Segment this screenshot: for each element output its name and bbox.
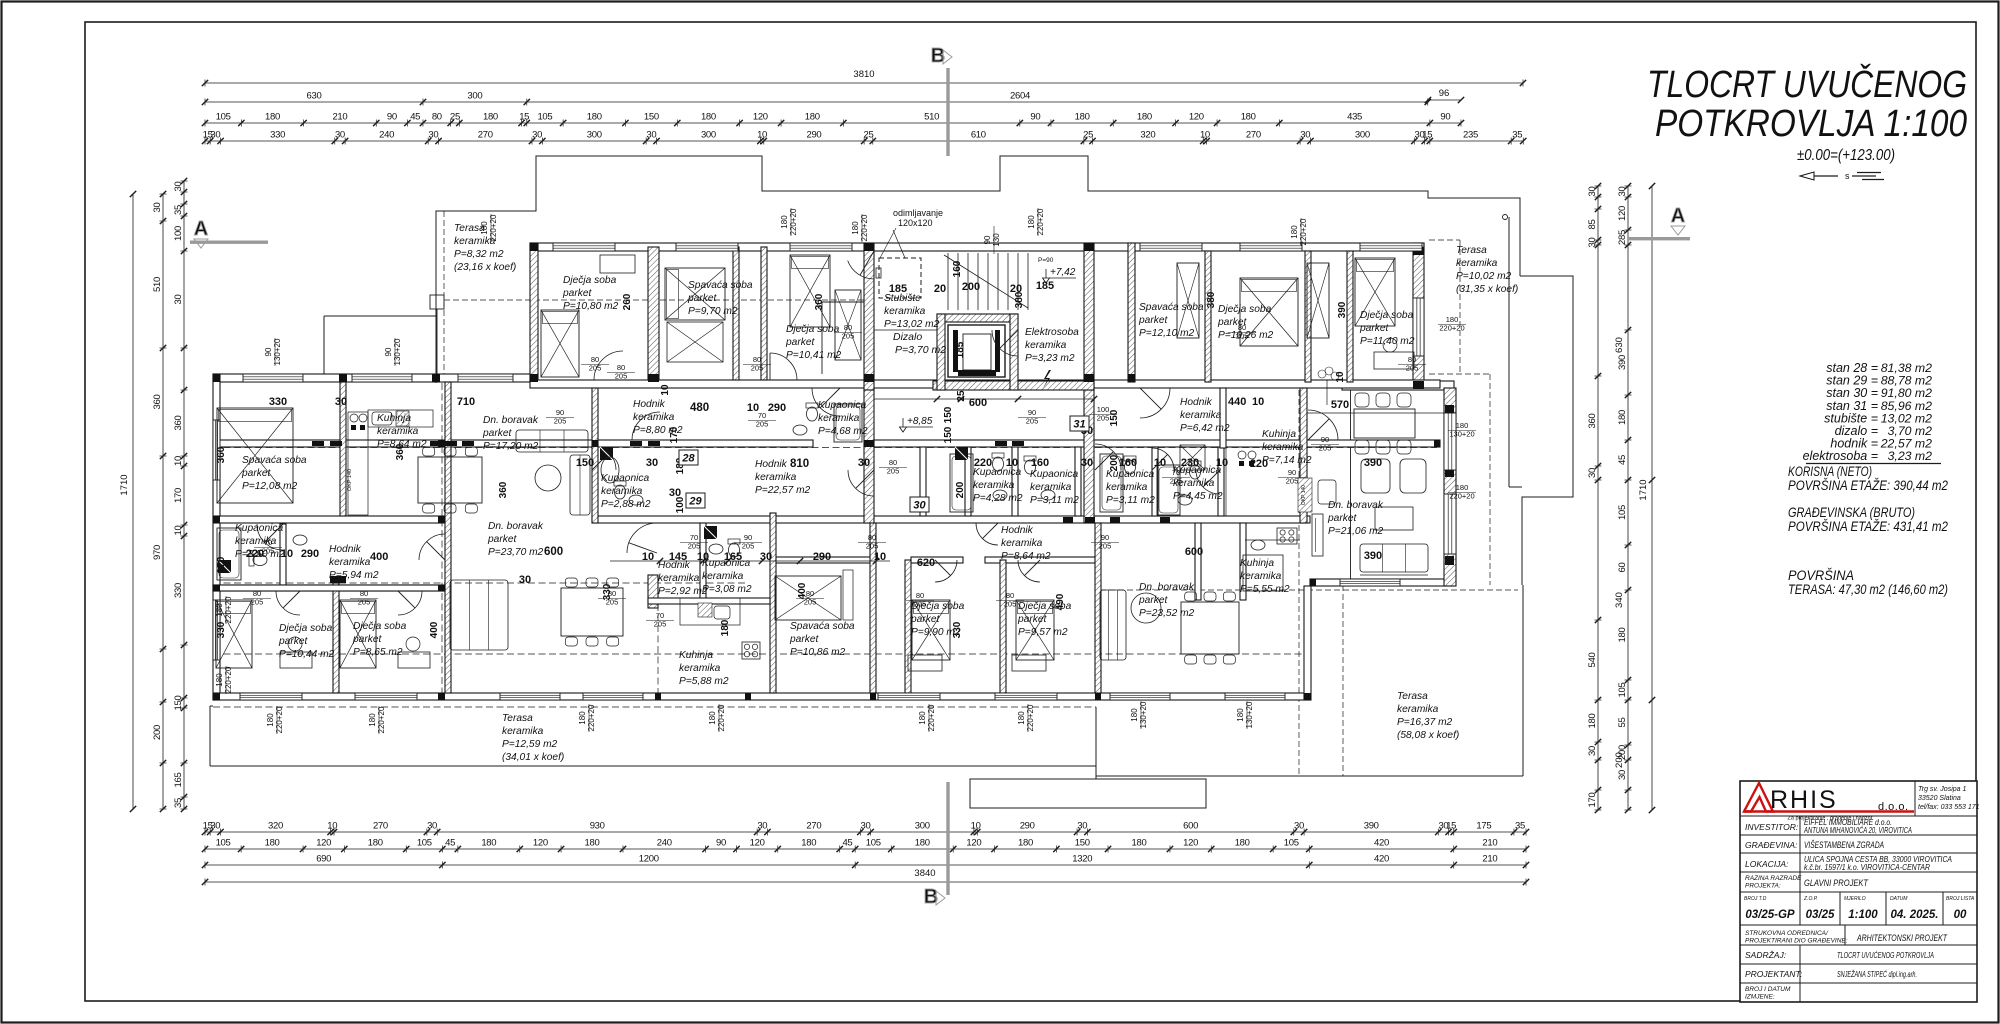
svg-text:300: 300 — [587, 130, 602, 141]
svg-text:TERASA: 47,30 m2 (146,60 m2): TERASA: 47,30 m2 (146,60 m2) — [1788, 581, 1948, 597]
svg-text:parket: parket — [1359, 323, 1389, 334]
svg-text:A: A — [194, 218, 208, 240]
svg-text:10: 10 — [173, 456, 184, 466]
svg-text:145: 145 — [669, 551, 687, 563]
svg-text:P=10,02 m2: P=10,02 m2 — [1456, 271, 1512, 282]
svg-text:P=5,88 m2: P=5,88 m2 — [679, 676, 729, 687]
svg-text:810: 810 — [790, 458, 809, 470]
svg-text:220+20: 220+20 — [1036, 208, 1045, 235]
svg-text:105: 105 — [417, 838, 432, 849]
svg-text:170: 170 — [173, 488, 184, 503]
svg-text:180: 180 — [587, 112, 602, 123]
svg-text:STRUKOVNA ODREDNICA/: STRUKOVNA ODREDNICA/ — [1745, 930, 1829, 937]
svg-text:230: 230 — [1181, 457, 1199, 469]
svg-text:270: 270 — [478, 130, 493, 141]
svg-text:POTKROVLJA 1:100: POTKROVLJA 1:100 — [1655, 103, 1967, 145]
svg-text:±0.00=(+123.00): ±0.00=(+123.00) — [1797, 147, 1895, 164]
svg-text:160: 160 — [1031, 457, 1049, 469]
svg-text:keramika: keramika — [329, 557, 371, 568]
svg-text:(31,35 x koef): (31,35 x koef) — [1456, 284, 1518, 295]
svg-text:s: s — [1845, 171, 1850, 181]
svg-text:Kupaonica: Kupaonica — [818, 400, 866, 411]
svg-text:235: 235 — [1463, 130, 1478, 141]
svg-text:30: 30 — [427, 821, 437, 832]
svg-text:290: 290 — [301, 548, 319, 560]
svg-text:PROJEKTA:: PROJEKTA: — [1745, 883, 1781, 890]
svg-text:Hodnik: Hodnik — [633, 399, 666, 410]
svg-text:30: 30 — [1081, 457, 1093, 469]
svg-text:15: 15 — [1422, 130, 1432, 141]
svg-text:30: 30 — [210, 821, 220, 832]
svg-text:180: 180 — [1017, 711, 1026, 725]
svg-text:Z.O.P.: Z.O.P. — [1803, 896, 1818, 902]
svg-text:240: 240 — [379, 130, 394, 141]
svg-text:90: 90 — [983, 235, 992, 244]
svg-text:400: 400 — [370, 551, 388, 563]
svg-text:930: 930 — [590, 821, 605, 832]
svg-text:205: 205 — [554, 417, 567, 426]
svg-text:205: 205 — [589, 364, 602, 373]
svg-text:keramika: keramika — [1240, 571, 1282, 582]
svg-text:Spavaća soba: Spavaća soba — [688, 280, 753, 291]
svg-text:220+20: 220+20 — [717, 704, 726, 731]
svg-text:P=16,37 m2: P=16,37 m2 — [1397, 717, 1453, 728]
svg-text:30: 30 — [1587, 468, 1598, 478]
svg-text:210: 210 — [1482, 838, 1497, 849]
svg-text:P=4,28 m2: P=4,28 m2 — [973, 493, 1023, 504]
svg-text:+8,85: +8,85 — [907, 416, 933, 427]
svg-text:30: 30 — [913, 500, 926, 512]
svg-text:P=8,65 m2: P=8,65 m2 — [353, 647, 403, 658]
svg-text:150: 150 — [1109, 409, 1120, 426]
svg-text:205: 205 — [688, 542, 701, 551]
svg-text:Kupaonica: Kupaonica — [1030, 469, 1078, 480]
svg-text:690: 690 — [316, 854, 331, 865]
svg-text:130+20: 130+20 — [1449, 430, 1474, 439]
svg-text:keramika: keramika — [502, 726, 544, 737]
svg-text:parket: parket — [789, 634, 819, 645]
svg-text:120: 120 — [533, 838, 548, 849]
svg-text:165: 165 — [724, 551, 742, 563]
svg-text:205: 205 — [1406, 364, 1419, 373]
svg-text:Kupaonica: Kupaonica — [235, 523, 283, 534]
svg-text:180: 180 — [1137, 112, 1152, 123]
svg-text:A: A — [1671, 205, 1685, 227]
svg-text:04. 2025.: 04. 2025. — [1891, 909, 1939, 921]
svg-text:180: 180 — [918, 711, 927, 725]
svg-text:Terasa: Terasa — [1456, 245, 1487, 256]
svg-text:180: 180 — [805, 112, 820, 123]
svg-text:parket: parket — [1138, 315, 1168, 326]
svg-text:180: 180 — [1075, 112, 1090, 123]
svg-text:Terasa: Terasa — [1397, 691, 1428, 702]
svg-text:10: 10 — [874, 551, 886, 563]
svg-text:290: 290 — [813, 551, 831, 563]
svg-text:parket: parket — [562, 288, 592, 299]
svg-text:180: 180 — [915, 838, 930, 849]
svg-text:keramika: keramika — [633, 412, 675, 423]
svg-text:90: 90 — [387, 112, 397, 123]
svg-text:270: 270 — [373, 821, 388, 832]
svg-text:30: 30 — [1587, 187, 1598, 197]
svg-text:keramika: keramika — [1106, 482, 1148, 493]
svg-text:03/25: 03/25 — [1806, 909, 1835, 921]
svg-text:170: 170 — [669, 426, 680, 443]
svg-text:205: 205 — [1236, 332, 1249, 341]
svg-text:Spavaća soba: Spavaća soba — [790, 621, 855, 632]
svg-text:160: 160 — [952, 260, 963, 277]
svg-text:Dječja soba: Dječja soba — [1218, 304, 1272, 315]
svg-text:180: 180 — [1290, 225, 1299, 239]
svg-text:180: 180 — [368, 838, 383, 849]
svg-text:P=9,70 m2: P=9,70 m2 — [688, 306, 738, 317]
svg-text:30: 30 — [428, 130, 438, 141]
svg-text:OKP 140: OKP 140 — [1301, 485, 1307, 505]
svg-text:tel/fax: 033 553 171: tel/fax: 033 553 171 — [1918, 804, 1980, 811]
svg-text:30: 30 — [152, 203, 163, 213]
svg-text:160: 160 — [1119, 457, 1137, 469]
svg-text:620: 620 — [917, 557, 935, 569]
svg-text:GLAVNI PROJEKT: GLAVNI PROJEKT — [1804, 878, 1869, 889]
svg-text:80: 80 — [432, 112, 442, 123]
svg-text:Kuhinja: Kuhinja — [377, 413, 411, 424]
svg-text:220+20: 220+20 — [587, 704, 596, 731]
svg-text:435: 435 — [1347, 112, 1362, 123]
svg-text:parket: parket — [482, 428, 512, 439]
svg-text:180: 180 — [1236, 708, 1245, 722]
svg-text:P=3,08 m2: P=3,08 m2 — [702, 584, 752, 595]
svg-text:10: 10 — [1252, 396, 1264, 408]
svg-text:30: 30 — [858, 457, 870, 469]
svg-text:120: 120 — [1617, 206, 1628, 221]
svg-text:150: 150 — [173, 696, 184, 711]
svg-text:Dn. boravak: Dn. boravak — [1328, 500, 1384, 511]
svg-text:220: 220 — [974, 457, 992, 469]
svg-text:360: 360 — [152, 395, 163, 410]
svg-text:30: 30 — [861, 821, 871, 832]
svg-text:180: 180 — [780, 215, 789, 229]
svg-text:BROJ I DATUM: BROJ I DATUM — [1745, 986, 1791, 993]
svg-text:30: 30 — [1077, 821, 1087, 832]
svg-text:420: 420 — [1374, 854, 1389, 865]
svg-text:360: 360 — [814, 293, 825, 310]
svg-text:45: 45 — [842, 838, 852, 849]
svg-text:220+20: 220+20 — [489, 214, 498, 241]
svg-text:P=12,10 m2: P=12,10 m2 — [1139, 328, 1195, 339]
svg-text:510: 510 — [152, 277, 163, 292]
svg-text:440: 440 — [1228, 396, 1246, 408]
svg-text:Spavaća soba: Spavaća soba — [1139, 302, 1204, 313]
svg-text:480: 480 — [690, 402, 709, 414]
svg-text:3810: 3810 — [853, 69, 874, 80]
svg-text:85: 85 — [1587, 220, 1598, 230]
svg-text:185: 185 — [955, 341, 966, 358]
svg-text:P=90: P=90 — [1038, 257, 1054, 264]
svg-text:205: 205 — [606, 598, 619, 607]
svg-text:keramika: keramika — [755, 472, 797, 483]
svg-text:105: 105 — [216, 838, 231, 849]
svg-text:180: 180 — [266, 713, 275, 727]
svg-text:360: 360 — [498, 481, 509, 498]
svg-text:130+20: 130+20 — [1139, 701, 1148, 728]
svg-text:P=12,08 m2: P=12,08 m2 — [242, 481, 298, 492]
svg-text:keramika: keramika — [702, 571, 744, 582]
svg-text:30: 30 — [335, 396, 347, 408]
svg-text:220+20: 220+20 — [224, 666, 233, 693]
svg-text:Dječja soba: Dječja soba — [563, 275, 617, 286]
svg-text:220+20: 220+20 — [1026, 704, 1035, 731]
svg-text:parket: parket — [1017, 614, 1047, 625]
svg-text:175: 175 — [1476, 821, 1491, 832]
svg-text:(34,01 x koef): (34,01 x koef) — [502, 752, 564, 763]
svg-text:205: 205 — [887, 467, 900, 476]
svg-text:31: 31 — [1073, 419, 1085, 431]
svg-text:10: 10 — [1200, 130, 1210, 141]
svg-text:30: 30 — [760, 551, 772, 563]
svg-text:keramika: keramika — [1456, 258, 1498, 269]
svg-text:630: 630 — [1614, 337, 1625, 353]
svg-text:130: 130 — [992, 233, 1001, 247]
svg-text:290: 290 — [806, 130, 821, 141]
svg-text:keramika: keramika — [973, 480, 1015, 491]
svg-text:260: 260 — [622, 293, 633, 310]
svg-text:390: 390 — [1364, 550, 1382, 562]
svg-text:P=17,20 m2: P=17,20 m2 — [483, 441, 539, 452]
svg-text:33520 Slatina: 33520 Slatina — [1918, 795, 1961, 802]
svg-text:30: 30 — [335, 130, 345, 141]
svg-text:10: 10 — [173, 526, 184, 536]
svg-text:P=23,70 m2: P=23,70 m2 — [488, 547, 544, 558]
svg-text:P=23,52 m2: P=23,52 m2 — [1139, 608, 1195, 619]
svg-text:630: 630 — [307, 91, 322, 102]
svg-text:Terasa: Terasa — [502, 713, 533, 724]
svg-text:90: 90 — [1440, 112, 1450, 123]
svg-text:205: 205 — [358, 598, 371, 607]
svg-text:970: 970 — [152, 545, 163, 560]
svg-text:205: 205 — [1319, 444, 1332, 453]
svg-text:10: 10 — [1006, 457, 1018, 469]
svg-text:00: 00 — [1954, 909, 1967, 921]
svg-text:180: 180 — [708, 711, 717, 725]
svg-text:340: 340 — [1614, 592, 1625, 608]
svg-text:parket: parket — [1327, 513, 1357, 524]
svg-text:30: 30 — [1300, 130, 1310, 141]
svg-text:03/25-GP: 03/25-GP — [1745, 909, 1795, 921]
svg-text:k.č.br. 1597/1 k.o. VIROVITIC: k.č.br. 1597/1 k.o. VIROVITICA-CENTAR — [1804, 863, 1930, 872]
svg-text:105: 105 — [216, 112, 231, 123]
svg-text:510: 510 — [924, 112, 939, 123]
svg-text:45: 45 — [1617, 455, 1628, 465]
svg-text:205: 205 — [1099, 542, 1112, 551]
svg-text:30: 30 — [757, 821, 767, 832]
svg-text:205: 205 — [1097, 414, 1110, 423]
svg-text:BROJ LISTA: BROJ LISTA — [1946, 896, 1975, 902]
svg-text:390: 390 — [1364, 821, 1379, 832]
svg-text:210: 210 — [332, 112, 347, 123]
svg-text:55: 55 — [1617, 718, 1628, 728]
svg-text:105: 105 — [866, 838, 881, 849]
svg-text:205: 205 — [251, 598, 264, 607]
svg-text:BROJ T.D: BROJ T.D — [1744, 896, 1767, 902]
svg-text:205: 205 — [615, 372, 628, 381]
svg-text:P=4,45 m2: P=4,45 m2 — [1173, 491, 1223, 502]
svg-text:Kuhinja: Kuhinja — [1240, 558, 1274, 569]
svg-text:120x120: 120x120 — [898, 218, 933, 228]
svg-text:90: 90 — [384, 347, 393, 356]
svg-text:20: 20 — [934, 283, 946, 295]
svg-text:400: 400 — [429, 621, 440, 638]
svg-text:25: 25 — [450, 112, 460, 123]
svg-text:keramika: keramika — [818, 413, 860, 424]
svg-text:Dn. boravak: Dn. boravak — [1139, 582, 1195, 593]
svg-text:330: 330 — [270, 130, 285, 141]
svg-text:POVRŠINA ETAŽE: 431,41 m2: POVRŠINA ETAŽE: 431,41 m2 — [1788, 518, 1948, 534]
svg-text:P=12,59 m2: P=12,59 m2 — [502, 739, 558, 750]
svg-text:180: 180 — [701, 112, 716, 123]
svg-text:490: 490 — [1055, 593, 1066, 610]
svg-text:10: 10 — [697, 551, 709, 563]
svg-text:45: 45 — [410, 112, 420, 123]
svg-text:185: 185 — [889, 283, 907, 295]
svg-text:elektrosoba =: elektrosoba = — [1803, 449, 1878, 463]
svg-text:parket: parket — [687, 293, 717, 304]
svg-text:Dizalo: Dizalo — [893, 331, 922, 343]
svg-text:180: 180 — [1132, 838, 1147, 849]
svg-text:600: 600 — [544, 546, 563, 558]
svg-text:180: 180 — [481, 838, 496, 849]
svg-text:30: 30 — [1294, 821, 1304, 832]
svg-text:Elektrosoba: Elektrosoba — [1025, 327, 1079, 338]
svg-text:220+20: 220+20 — [377, 706, 386, 733]
svg-text:odimljavanje: odimljavanje — [893, 208, 943, 218]
svg-text:P=11,40 m2: P=11,40 m2 — [1360, 336, 1415, 347]
svg-text:keramika: keramika — [1180, 410, 1222, 421]
svg-text:SNJEŽANA STIPEĆ dipl.ing.arh.: SNJEŽANA STIPEĆ dipl.ing.arh. — [1837, 969, 1917, 979]
svg-text:parket: parket — [352, 634, 382, 645]
svg-text:Kupaonica: Kupaonica — [601, 473, 649, 484]
svg-text:Kuhinja: Kuhinja — [679, 650, 713, 661]
svg-text:180: 180 — [585, 838, 600, 849]
svg-text:P=3,11 m2: P=3,11 m2 — [1030, 495, 1079, 506]
svg-text:420: 420 — [1374, 838, 1389, 849]
svg-text:150: 150 — [943, 406, 954, 423]
svg-text:parket: parket — [785, 337, 815, 348]
svg-text:25: 25 — [956, 390, 967, 402]
svg-text:180: 180 — [801, 838, 816, 849]
svg-text:170: 170 — [1587, 793, 1598, 808]
svg-text:380: 380 — [1206, 291, 1217, 308]
svg-text:(58,08 x koef): (58,08 x koef) — [1397, 730, 1459, 741]
svg-text:220+20: 220+20 — [224, 596, 233, 623]
svg-text:290: 290 — [1020, 821, 1035, 832]
svg-text:1710: 1710 — [119, 474, 130, 495]
svg-text:35: 35 — [1515, 821, 1525, 832]
svg-text:180: 180 — [578, 711, 587, 725]
svg-text:Hodnik: Hodnik — [755, 459, 788, 470]
svg-text:290: 290 — [768, 402, 786, 414]
svg-text:220+20: 220+20 — [1439, 324, 1464, 333]
svg-text:P=10,86 m2: P=10,86 m2 — [790, 647, 846, 658]
svg-text:Dječja soba: Dječja soba — [279, 623, 333, 634]
svg-text:RHIS: RHIS — [1770, 786, 1838, 814]
svg-text:10: 10 — [281, 548, 293, 560]
svg-text:570: 570 — [1331, 399, 1349, 411]
svg-text:130+20: 130+20 — [1245, 701, 1254, 728]
svg-text:220+20: 220+20 — [1299, 218, 1308, 245]
svg-text:10: 10 — [327, 821, 337, 832]
svg-text:P=5,94 m2: P=5,94 m2 — [329, 570, 379, 581]
svg-text:96: 96 — [1439, 88, 1450, 99]
svg-text:Spavaća soba: Spavaća soba — [242, 455, 307, 466]
svg-text:Dn. boravak: Dn. boravak — [488, 521, 544, 532]
svg-text:Hodnik: Hodnik — [1180, 397, 1213, 408]
svg-text:360: 360 — [395, 443, 406, 460]
svg-text:SADRŽAJ:: SADRŽAJ: — [1745, 950, 1787, 960]
svg-text:Hodnik: Hodnik — [329, 544, 362, 555]
svg-text:200: 200 — [1614, 752, 1625, 768]
svg-text:P=10,80 m2: P=10,80 m2 — [563, 301, 619, 312]
svg-text:ARHITEKTONSKI PROJEKT: ARHITEKTONSKI PROJEKT — [1856, 933, 1948, 944]
svg-text:10: 10 — [1154, 457, 1166, 469]
svg-text:P=13,02 m2: P=13,02 m2 — [884, 319, 940, 330]
svg-text:180: 180 — [215, 603, 224, 617]
svg-text:330: 330 — [952, 621, 963, 638]
svg-text:180: 180 — [1617, 628, 1628, 643]
svg-text:PROJEKTIRANI DIO GRAĐEVINE:: PROJEKTIRANI DIO GRAĐEVINE: — [1745, 938, 1848, 945]
svg-text:parket: parket — [910, 614, 940, 625]
svg-text:600: 600 — [969, 397, 987, 409]
svg-text:Hodnik: Hodnik — [1001, 525, 1034, 536]
svg-text:205: 205 — [1026, 417, 1039, 426]
svg-text:220+20: 220+20 — [275, 706, 284, 733]
svg-text:1710: 1710 — [1638, 479, 1649, 500]
svg-text:P=21,06 m2: P=21,06 m2 — [1328, 526, 1384, 537]
svg-text:90: 90 — [716, 838, 726, 849]
svg-text:10: 10 — [660, 384, 671, 396]
svg-text:380: 380 — [1014, 291, 1025, 308]
svg-text:P=3,70 m2: P=3,70 m2 — [895, 344, 946, 356]
svg-text:P=22,57 m2: P=22,57 m2 — [755, 485, 811, 496]
svg-text:270: 270 — [806, 821, 821, 832]
svg-text:10: 10 — [757, 130, 767, 141]
svg-text:390: 390 — [1617, 355, 1628, 370]
svg-text:1:100: 1:100 — [1848, 909, 1878, 921]
svg-text:330: 330 — [173, 583, 184, 598]
svg-text:35: 35 — [173, 798, 184, 808]
svg-text:LOKACIJA:: LOKACIJA: — [1745, 859, 1789, 869]
svg-text:PROJEKTANT:: PROJEKTANT: — [1745, 969, 1803, 979]
svg-text:28: 28 — [681, 453, 695, 465]
svg-text:keramika: keramika — [1262, 442, 1304, 453]
svg-text:205: 205 — [751, 364, 764, 373]
svg-text:Dječja soba: Dječja soba — [353, 621, 407, 632]
svg-text:220+20: 220+20 — [927, 704, 936, 731]
svg-text:180: 180 — [480, 221, 489, 235]
svg-text:105: 105 — [537, 112, 552, 123]
svg-text:180: 180 — [1617, 410, 1628, 425]
svg-text:10: 10 — [642, 551, 654, 563]
svg-text:10: 10 — [1335, 371, 1346, 383]
svg-text:90: 90 — [264, 347, 273, 356]
svg-text:P=10,41 m2: P=10,41 m2 — [786, 350, 842, 361]
svg-text:320: 320 — [268, 821, 283, 832]
svg-text:205: 205 — [914, 600, 927, 609]
svg-text:205: 205 — [742, 542, 755, 551]
svg-text:+7,42: +7,42 — [1050, 267, 1076, 278]
svg-text:OKP 140: OKP 140 — [347, 469, 353, 491]
svg-text:P=2,88 m2: P=2,88 m2 — [601, 499, 651, 510]
svg-text:45: 45 — [445, 838, 455, 849]
